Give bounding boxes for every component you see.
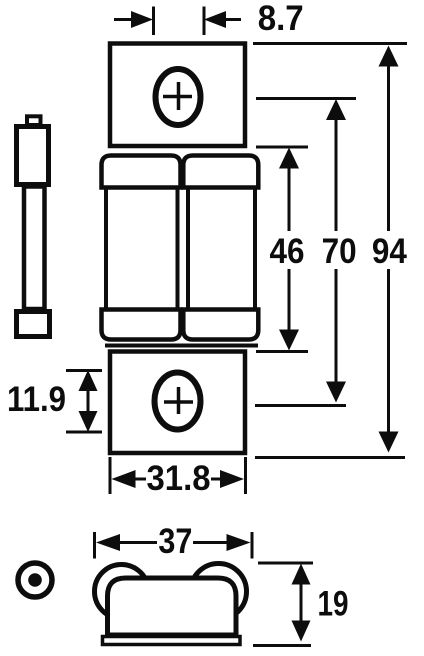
end view right barrel circle xyxy=(191,564,247,620)
dimension 8.7 right tick xyxy=(203,7,206,36)
svg-text:94: 94 xyxy=(372,232,407,271)
svg-text:46: 46 xyxy=(270,232,305,271)
dimension 70 line and arrows xyxy=(326,99,346,403)
dimension 11.9 line and arrows xyxy=(79,370,98,432)
right fuse tube xyxy=(188,188,255,310)
bottom assembly plate line xyxy=(105,344,258,348)
svg-text:70: 70 xyxy=(322,232,357,271)
label 70 xyxy=(322,232,357,271)
front view bottom block xyxy=(110,352,245,454)
top screw cross slot xyxy=(163,82,192,110)
side view nub xyxy=(27,116,41,125)
side view top block xyxy=(17,127,49,185)
svg-text:31.8: 31.8 xyxy=(147,459,211,498)
washer end view outer ring xyxy=(18,563,52,597)
svg-text:19: 19 xyxy=(318,585,349,624)
dimension 11.9 top extension line xyxy=(66,369,102,372)
label 8.7 xyxy=(258,0,304,38)
dimension 94 line and arrows xyxy=(379,46,399,453)
dimension 31.8 right extension line xyxy=(244,457,247,494)
end view body xyxy=(108,578,237,635)
left fuse bottom cap xyxy=(102,310,181,340)
front view top block xyxy=(110,44,245,147)
bottom screw cross slot xyxy=(164,387,193,414)
dimension 46 bottom extension line xyxy=(256,350,308,353)
dimension 19 top extension line xyxy=(258,562,313,565)
right fuse bottom cap xyxy=(183,310,258,340)
label 19 xyxy=(318,585,349,624)
dimension 46 top extension line xyxy=(256,146,308,149)
left fuse tube xyxy=(106,188,178,310)
svg-text:11.9: 11.9 xyxy=(7,380,66,419)
dimension 70 top extension line xyxy=(256,97,356,100)
dimension 37 line and arrows xyxy=(96,534,251,551)
dimension 8.7 right arrow xyxy=(204,11,241,28)
label 94 xyxy=(372,232,407,271)
dimension 94 bottom extension line xyxy=(255,456,405,459)
dimension 31.8 left extension line xyxy=(109,457,112,494)
dimension 46 line and arrows xyxy=(279,148,299,351)
svg-text:37: 37 xyxy=(158,522,192,561)
dimension 19 bottom extension line xyxy=(253,644,311,647)
left fuse top cap xyxy=(102,156,181,188)
washer end view center dot xyxy=(28,573,42,587)
dimension 8.7 left tick xyxy=(152,7,155,36)
dimension 31.8 line and arrows xyxy=(112,470,245,488)
dimension 94 top extension line xyxy=(253,42,407,45)
side view tube xyxy=(24,187,45,310)
right fuse top cap xyxy=(183,156,258,188)
dimension 37 left tick xyxy=(93,532,96,559)
label 37 xyxy=(158,522,192,561)
end view base plate xyxy=(103,637,241,645)
top screw ellipse xyxy=(156,69,201,125)
dimension 37 right tick xyxy=(251,532,254,559)
svg-text:8.7: 8.7 xyxy=(258,0,304,38)
label 11.9 xyxy=(7,380,66,419)
dimension 11.9 bottom extension line xyxy=(66,431,102,434)
bottom screw ellipse xyxy=(155,373,201,430)
dimension 19 line and arrows xyxy=(292,564,311,642)
end view left barrel circle xyxy=(95,565,149,619)
label 46 xyxy=(270,232,305,271)
dimension 8.7 left arrow xyxy=(114,11,153,28)
label 31.8 xyxy=(147,459,211,498)
side view bottom block xyxy=(17,312,50,337)
dimension 70 bottom extension line xyxy=(255,404,346,407)
